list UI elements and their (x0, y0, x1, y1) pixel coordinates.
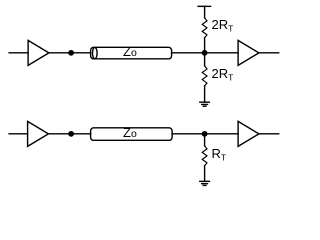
svg-text:Zo: Zo (123, 44, 137, 59)
svg-text:RT: RT (212, 146, 227, 163)
svg-text:2RT: 2RT (212, 17, 234, 34)
svg-text:2RT: 2RT (212, 66, 234, 83)
svg-text:Zo: Zo (123, 125, 137, 140)
